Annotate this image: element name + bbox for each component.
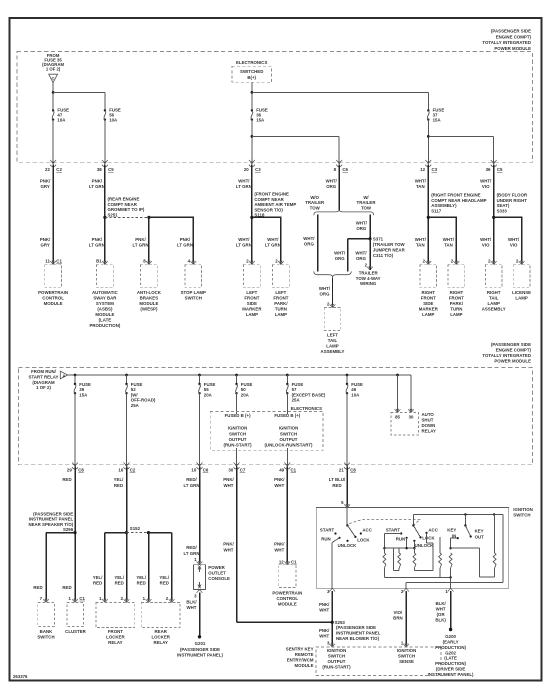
svg-text:VIO/: VIO/ <box>394 610 404 615</box>
svg-text:(LATE: (LATE <box>444 656 457 661</box>
svg-text:WHT: WHT <box>187 605 197 610</box>
svg-text:C1: C1 <box>291 468 297 473</box>
svg-text:ELECTRONICS: ELECTRONICS <box>236 60 267 65</box>
svg-text:RED/: RED/ <box>186 477 197 482</box>
svg-text:ACC: ACC <box>362 527 372 532</box>
svg-text:30: 30 <box>228 468 233 473</box>
svg-text:B(+): B(+) <box>247 75 256 80</box>
svg-text:(BODY FLOOR: (BODY FLOOR <box>497 193 528 198</box>
svg-text:WHT/: WHT/ <box>508 237 520 242</box>
svg-text:CONSOLE: CONSOLE <box>208 576 230 581</box>
svg-text:SWITCH: SWITCH <box>37 634 54 639</box>
svg-text:GRY: GRY <box>40 243 49 248</box>
svg-text:29: 29 <box>67 468 72 473</box>
svg-text:COMPT NEAR: COMPT NEAR <box>254 197 284 202</box>
svg-text:S117: S117 <box>431 209 442 214</box>
svg-text:LAMP: LAMP <box>488 301 500 306</box>
svg-text:IN: IN <box>452 533 456 538</box>
svg-text:WHT/: WHT/ <box>443 237 455 242</box>
svg-text:LAMP: LAMP <box>246 312 258 317</box>
svg-text:A: A <box>63 374 66 378</box>
svg-text:C7: C7 <box>240 468 246 473</box>
svg-text:12: 12 <box>420 167 425 172</box>
svg-text:(PASSENGER SIDE: (PASSENGER SIDE <box>491 342 531 347</box>
svg-text:POWER MODULE: POWER MODULE <box>494 46 531 51</box>
svg-text:(UNLOCK-RUN/START): (UNLOCK-RUN/START) <box>264 443 313 448</box>
svg-text:WHT: WHT <box>274 483 284 488</box>
svg-text:20A: 20A <box>241 392 250 397</box>
svg-text:TAN: TAN <box>416 243 425 248</box>
svg-text:AMBIENT AIR TEMP: AMBIENT AIR TEMP <box>254 202 296 207</box>
svg-text:PNK/: PNK/ <box>92 237 103 242</box>
svg-text:(RUN-START): (RUN-START) <box>224 443 253 448</box>
svg-text:SENSE: SENSE <box>399 659 414 664</box>
svg-text:START RELAY: START RELAY <box>29 375 59 380</box>
svg-text:RED: RED <box>33 585 42 590</box>
svg-text:WHT: WHT <box>224 483 234 488</box>
svg-text:10A: 10A <box>57 118 66 123</box>
svg-text:WHT/: WHT/ <box>238 179 250 184</box>
svg-text:(PASSENGER SIDE: (PASSENGER SIDE <box>491 29 531 34</box>
svg-text:COMPT NEAR HEADLAMP: COMPT NEAR HEADLAMP <box>431 198 486 203</box>
svg-text:C6: C6 <box>203 468 209 473</box>
svg-text:IGNITION: IGNITION <box>397 648 416 653</box>
svg-text:SWITCH: SWITCH <box>280 431 297 436</box>
svg-text:(W/ESP): (W/ESP) <box>140 307 158 312</box>
svg-text:36: 36 <box>486 167 491 172</box>
svg-text:ASSEMBLY): ASSEMBLY) <box>431 203 457 208</box>
svg-text:LT GRN: LT GRN <box>89 184 105 189</box>
svg-text:YEL/: YEL/ <box>114 477 125 482</box>
svg-text:PNK/: PNK/ <box>180 237 191 242</box>
svg-text:30: 30 <box>409 414 414 419</box>
svg-text:KEY: KEY <box>475 529 484 534</box>
svg-text:C5: C5 <box>497 167 503 172</box>
svg-text:C2: C2 <box>130 468 136 473</box>
svg-text:FROM RUN/: FROM RUN/ <box>31 369 57 374</box>
svg-text:TOW: TOW <box>310 205 321 210</box>
svg-text:OUTLET: OUTLET <box>208 570 226 575</box>
svg-text:LT GRN: LT GRN <box>265 243 281 248</box>
svg-text:C: C <box>52 75 55 80</box>
svg-text:SWAY BAR: SWAY BAR <box>93 296 117 301</box>
svg-text:LT GRN: LT GRN <box>236 184 252 189</box>
svg-text:TOTALLY INTEGRATED: TOTALLY INTEGRATED <box>482 353 531 358</box>
svg-text:LT GRN: LT GRN <box>133 243 149 248</box>
svg-text:1 OF 2): 1 OF 2) <box>46 67 61 72</box>
svg-text:12: 12 <box>279 560 284 565</box>
svg-text:38: 38 <box>97 167 102 172</box>
svg-text:TRAILER: TRAILER <box>305 200 325 205</box>
svg-text:WHT/: WHT/ <box>355 251 367 256</box>
svg-text:YEL/: YEL/ <box>114 575 125 580</box>
svg-text:TOW: TOW <box>361 205 372 210</box>
svg-text:GRY: GRY <box>40 184 49 189</box>
svg-text:G201: G201 <box>195 641 206 646</box>
svg-text:C2: C2 <box>56 167 62 172</box>
svg-text:UNLOCK: UNLOCK <box>415 543 435 548</box>
svg-text:LOCKER: LOCKER <box>151 634 170 639</box>
svg-text:BLK/: BLK/ <box>186 599 197 604</box>
svg-text:10A: 10A <box>109 118 118 123</box>
svg-text:PARK/: PARK/ <box>274 301 288 306</box>
svg-text:RED: RED <box>93 581 102 586</box>
svg-text:FRONT: FRONT <box>421 296 436 301</box>
svg-text:UNDER RIGHT: UNDER RIGHT <box>497 198 528 203</box>
svg-text:RED/: RED/ <box>186 545 197 550</box>
svg-text:C1: C1 <box>56 258 62 263</box>
svg-text:20A: 20A <box>204 392 213 397</box>
svg-text:FRONT: FRONT <box>244 296 259 301</box>
svg-text:1 OF 2): 1 OF 2) <box>36 385 51 390</box>
svg-text:SWITCHED: SWITCHED <box>240 69 263 74</box>
svg-text:VIO: VIO <box>482 184 490 189</box>
svg-text:RELAY: RELAY <box>422 428 437 433</box>
svg-text:ANTI-LOCK: ANTI-LOCK <box>137 290 162 295</box>
svg-text:PRODUCTION): PRODUCTION) <box>435 645 466 650</box>
svg-text:FUSED B (+): FUSED B (+) <box>225 413 251 418</box>
svg-text:WHT/: WHT/ <box>356 220 368 225</box>
svg-text:DOWN: DOWN <box>422 423 436 428</box>
svg-text:(PASSENGER SIDE: (PASSENGER SIDE <box>180 647 220 652</box>
svg-text:LT BLU/: LT BLU/ <box>329 477 346 482</box>
svg-text:RELAY: RELAY <box>108 640 123 645</box>
svg-text:RELAY: RELAY <box>153 640 168 645</box>
svg-text:FRONT: FRONT <box>108 629 123 634</box>
svg-text:FRONT: FRONT <box>449 296 464 301</box>
svg-text:LEFT: LEFT <box>275 290 286 295</box>
svg-text:21: 21 <box>339 468 344 473</box>
svg-text:KEY: KEY <box>447 528 456 533</box>
svg-text:85: 85 <box>395 414 400 419</box>
svg-text:REMOTE: REMOTE <box>295 652 314 657</box>
svg-text:AUTO: AUTO <box>422 412 435 417</box>
svg-text:BRN: BRN <box>393 616 402 621</box>
svg-text:ORG: ORG <box>304 241 315 246</box>
svg-text:(TRAILER TOW: (TRAILER TOW <box>373 242 406 247</box>
svg-text:SHUT: SHUT <box>422 418 434 423</box>
svg-text:RED: RED <box>114 483 123 488</box>
svg-text:C3: C3 <box>432 167 438 172</box>
svg-text:22: 22 <box>45 167 50 172</box>
svg-text:S253: S253 <box>335 620 346 625</box>
svg-text:LT GRN: LT GRN <box>177 243 193 248</box>
svg-text:LEFT: LEFT <box>246 290 257 295</box>
svg-text:ENGINE COMPT): ENGINE COMPT) <box>496 347 532 352</box>
svg-text:REAR: REAR <box>155 629 168 634</box>
svg-text:UNLOCK: UNLOCK <box>338 543 358 548</box>
svg-text:TRAILER: TRAILER <box>357 200 377 205</box>
svg-text:SYSTEM: SYSTEM <box>96 301 114 306</box>
svg-text:YEL/: YEL/ <box>159 575 170 580</box>
svg-text:TAN: TAN <box>416 184 425 189</box>
svg-text:SWITCH: SWITCH <box>398 654 415 659</box>
svg-text:(RIGHT FRONT ENGINE: (RIGHT FRONT ENGINE <box>431 193 480 198</box>
svg-text:MARKER: MARKER <box>419 307 439 312</box>
svg-text:POWER: POWER <box>208 565 225 570</box>
svg-text:FRONT: FRONT <box>273 296 288 301</box>
svg-text:RED: RED <box>160 581 169 586</box>
svg-text:TURN: TURN <box>275 307 287 312</box>
svg-text:G200: G200 <box>445 634 456 639</box>
svg-text:ENGINE COMPT): ENGINE COMPT) <box>496 34 532 39</box>
svg-text:WHT/: WHT/ <box>480 179 492 184</box>
svg-text:WHT: WHT <box>436 606 446 611</box>
svg-text:RED: RED <box>115 581 124 586</box>
svg-text:TRAILER: TRAILER <box>359 271 379 276</box>
svg-text:(OR: (OR <box>437 612 446 617</box>
svg-text:LAMP: LAMP <box>326 344 338 349</box>
svg-text:MODULE: MODULE <box>295 663 314 668</box>
svg-text:S152: S152 <box>130 526 141 531</box>
svg-text:VIO: VIO <box>510 243 518 248</box>
svg-text:CLUSTER: CLUSTER <box>65 629 86 634</box>
svg-text:START: START <box>320 528 335 533</box>
svg-text:WHT: WHT <box>319 634 329 639</box>
svg-text:OUT: OUT <box>475 534 485 539</box>
svg-text:ACC: ACC <box>428 527 438 532</box>
svg-text:LAMP: LAMP <box>275 312 287 317</box>
svg-text:WHT/: WHT/ <box>319 286 331 291</box>
svg-text:WHT/: WHT/ <box>334 251 346 256</box>
svg-text:PNK/: PNK/ <box>274 477 285 482</box>
svg-text:OUTPUT: OUTPUT <box>328 659 346 664</box>
svg-text:S333: S333 <box>497 209 508 214</box>
svg-text:ORG: ORG <box>326 184 337 189</box>
svg-text:(REAR ENGINE: (REAR ENGINE <box>108 197 140 202</box>
svg-text:WHT: WHT <box>274 547 284 552</box>
svg-text:(DIAGRAM: (DIAGRAM <box>32 380 55 385</box>
svg-text:PNK/: PNK/ <box>319 628 330 633</box>
svg-text:WHT: WHT <box>224 547 234 552</box>
svg-text:LOCK: LOCK <box>357 538 370 543</box>
svg-text:WHT/: WHT/ <box>267 237 279 242</box>
svg-text:ORG: ORG <box>335 256 346 261</box>
svg-text:PNK/: PNK/ <box>135 237 146 242</box>
svg-text:G202: G202 <box>445 650 456 655</box>
svg-text:RIGHT: RIGHT <box>450 290 464 295</box>
svg-text:C5: C5 <box>108 167 114 172</box>
svg-text:IGNITION: IGNITION <box>513 507 532 512</box>
svg-text:VIO: VIO <box>482 243 490 248</box>
svg-text:ORG: ORG <box>356 226 367 231</box>
svg-text:10: 10 <box>191 468 196 473</box>
svg-text:YEL/: YEL/ <box>136 575 147 580</box>
svg-text:WHT/: WHT/ <box>238 237 250 242</box>
svg-text:15A: 15A <box>256 118 265 123</box>
svg-text:GROMMET TO IP): GROMMET TO IP) <box>108 207 145 212</box>
svg-text:SWITCH: SWITCH <box>185 296 202 301</box>
svg-text:C8: C8 <box>78 468 84 473</box>
svg-text:PRODUCTION): PRODUCTION) <box>435 661 466 666</box>
svg-text:SIDE: SIDE <box>247 301 257 306</box>
svg-text:WHT: WHT <box>319 608 329 613</box>
svg-text:ASSEMBLY: ASSEMBLY <box>321 349 345 354</box>
svg-text:SENSOR T/O): SENSOR T/O) <box>254 207 283 212</box>
svg-text:WHT/: WHT/ <box>326 179 338 184</box>
svg-text:RED: RED <box>332 483 341 488</box>
svg-text:BANK: BANK <box>40 629 53 634</box>
svg-text:YEL/: YEL/ <box>93 575 104 580</box>
svg-text:RED: RED <box>62 585 71 590</box>
svg-text:(FRONT ENGINE: (FRONT ENGINE <box>254 192 289 197</box>
svg-text:C1: C1 <box>291 560 297 565</box>
svg-text:(PASSENGER SIDE: (PASSENGER SIDE <box>33 511 73 516</box>
svg-text:POWERTRAIN: POWERTRAIN <box>38 290 68 295</box>
svg-text:RED: RED <box>137 581 146 586</box>
svg-text:PNK/: PNK/ <box>274 542 285 547</box>
svg-text:(DRIVER SIDE: (DRIVER SIDE <box>436 667 466 672</box>
svg-text:INSTRUMENT PANEL: INSTRUMENT PANEL <box>29 517 74 522</box>
svg-text:WHT/: WHT/ <box>415 179 427 184</box>
svg-text:AUTOMATIC: AUTOMATIC <box>92 290 119 295</box>
svg-text:(EARLY: (EARLY <box>443 639 459 644</box>
svg-text:PNK/: PNK/ <box>40 179 51 184</box>
svg-text:SEAT): SEAT) <box>497 203 510 208</box>
svg-text:NEAR SPEAKER T/O): NEAR SPEAKER T/O) <box>28 522 73 527</box>
svg-text:BLK/: BLK/ <box>435 601 446 606</box>
svg-text:LICENSE: LICENSE <box>512 290 531 295</box>
svg-text:TAIL: TAIL <box>328 338 338 343</box>
svg-text:20: 20 <box>244 167 249 172</box>
svg-text:MARKER: MARKER <box>242 307 262 312</box>
svg-text:OUTPUT: OUTPUT <box>280 437 298 442</box>
svg-text:LAMP: LAMP <box>450 312 462 317</box>
svg-text:MODULE: MODULE <box>44 301 63 306</box>
svg-text:49: 49 <box>279 468 284 473</box>
svg-text:CONTROL: CONTROL <box>276 596 298 601</box>
svg-text:(ASBS): (ASBS) <box>97 307 113 312</box>
svg-text:15A: 15A <box>433 118 442 123</box>
svg-text:MODULE: MODULE <box>95 312 114 317</box>
svg-text:C1: C1 <box>79 596 85 601</box>
svg-text:BLK): BLK) <box>435 618 446 623</box>
svg-text:PNK/: PNK/ <box>223 477 234 482</box>
svg-text:WHT/: WHT/ <box>480 237 492 242</box>
svg-text:W/: W/ <box>363 195 369 200</box>
svg-text:10A: 10A <box>351 392 360 397</box>
svg-text:ENTRY/WCM: ENTRY/WCM <box>287 657 314 662</box>
svg-text:WHT/: WHT/ <box>303 236 315 241</box>
svg-text:RUN: RUN <box>396 537 405 542</box>
svg-text:LT GRN: LT GRN <box>236 243 252 248</box>
svg-text:RIGHT: RIGHT <box>487 290 501 295</box>
svg-text:STOP LAMP: STOP LAMP <box>181 290 206 295</box>
svg-text:LT GRN: LT GRN <box>89 243 105 248</box>
svg-text:SIDE: SIDE <box>423 301 433 306</box>
svg-text:(RUN-START): (RUN-START) <box>322 665 351 670</box>
svg-text:OUTPUT: OUTPUT <box>229 437 247 442</box>
svg-text:PRODUCTION): PRODUCTION) <box>89 323 120 328</box>
svg-text:C8: C8 <box>350 468 356 473</box>
svg-text:B1: B1 <box>96 258 102 263</box>
svg-text:INSTRUMENT PANEL): INSTRUMENT PANEL) <box>428 672 474 677</box>
svg-text:LAMP: LAMP <box>515 296 527 301</box>
svg-text:MODULE: MODULE <box>278 602 297 607</box>
svg-text:C6: C6 <box>342 167 348 172</box>
svg-text:IGNITION: IGNITION <box>327 648 346 653</box>
svg-text:PNK/: PNK/ <box>40 237 51 242</box>
svg-text:LT GRN: LT GRN <box>184 483 200 488</box>
svg-text:11: 11 <box>45 258 50 263</box>
svg-text:S296: S296 <box>63 527 74 532</box>
svg-text:LOCKER: LOCKER <box>106 634 125 639</box>
svg-text:RIGHT: RIGHT <box>421 290 435 295</box>
svg-text:263376: 263376 <box>13 674 28 679</box>
svg-text:LAMP: LAMP <box>422 312 434 317</box>
svg-text:ORG: ORG <box>356 256 367 261</box>
svg-text:IGNITION: IGNITION <box>228 426 247 431</box>
svg-text:ELECTRONICS: ELECTRONICS <box>291 406 322 411</box>
svg-text:COMPT NEAR: COMPT NEAR <box>108 202 138 207</box>
svg-text:TOW 4-WAY: TOW 4-WAY <box>356 276 381 281</box>
svg-text:C3: C3 <box>255 167 261 172</box>
svg-text:(PASSENGER SIDE: (PASSENGER SIDE <box>336 625 376 630</box>
svg-text:WIRING: WIRING <box>360 281 377 286</box>
svg-text:IGNITION: IGNITION <box>279 426 298 431</box>
svg-text:SWITCH: SWITCH <box>229 431 246 436</box>
svg-text:PNK/: PNK/ <box>92 179 103 184</box>
svg-text:25A: 25A <box>131 403 140 408</box>
svg-text:INSTRUMENT PANEL): INSTRUMENT PANEL) <box>177 652 223 657</box>
svg-text:RED: RED <box>62 477 71 482</box>
svg-text:LOCK: LOCK <box>422 536 435 541</box>
svg-text:BRAKES: BRAKES <box>140 296 159 301</box>
svg-text:ASSEMBLY: ASSEMBLY <box>482 307 506 312</box>
svg-text:POWERTRAIN: POWERTRAIN <box>272 591 302 596</box>
svg-text:NEAR BLOWER T/O): NEAR BLOWER T/O) <box>336 636 380 641</box>
svg-text:WHT/: WHT/ <box>415 237 427 242</box>
svg-text:MODULE: MODULE <box>139 301 158 306</box>
svg-text:W/O: W/O <box>310 195 319 200</box>
svg-text:25A: 25A <box>292 398 301 403</box>
svg-text:SENTRY KEY: SENTRY KEY <box>286 646 314 651</box>
svg-text:PARK/: PARK/ <box>450 301 464 306</box>
svg-text:RUN: RUN <box>321 537 330 542</box>
svg-text:ORG: ORG <box>320 292 331 297</box>
svg-text:LT GRN: LT GRN <box>184 551 200 556</box>
svg-text:FUSED B (+): FUSED B (+) <box>274 413 300 418</box>
svg-text:JUMPER NEAR: JUMPER NEAR <box>373 247 406 252</box>
svg-text:C311 T/O): C311 T/O) <box>373 253 394 258</box>
svg-text:S371: S371 <box>373 236 384 241</box>
svg-text:PNK/: PNK/ <box>319 602 330 607</box>
svg-text:TURN: TURN <box>450 307 462 312</box>
svg-text:POWER MODULE: POWER MODULE <box>494 359 531 364</box>
svg-text:PNK/: PNK/ <box>223 542 234 547</box>
svg-text:START: START <box>386 528 401 533</box>
svg-text:LEFT: LEFT <box>327 333 338 338</box>
svg-text:S251: S251 <box>108 212 119 217</box>
svg-text:16: 16 <box>118 468 123 473</box>
svg-text:INSTRUMENT PANEL: INSTRUMENT PANEL <box>336 631 381 636</box>
svg-text:CONTROL: CONTROL <box>42 296 64 301</box>
svg-text:TAN: TAN <box>444 243 453 248</box>
svg-text:(LATE: (LATE <box>99 318 112 323</box>
svg-text:TAIL: TAIL <box>489 296 499 301</box>
svg-text:SWITCH: SWITCH <box>513 513 530 518</box>
svg-text:TOTALLY INTEGRATED: TOTALLY INTEGRATED <box>482 40 531 45</box>
svg-text:15A: 15A <box>79 392 88 397</box>
svg-text:SWITCH: SWITCH <box>328 654 345 659</box>
